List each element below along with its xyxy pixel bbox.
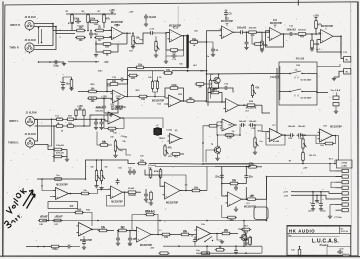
svg-text:100p: 100p: [53, 65, 59, 68]
svg-text:10k: 10k: [188, 97, 193, 100]
ground L chain: [66, 150, 68, 159]
ground R13: [261, 49, 263, 50]
svg-text:10u/63: 10u/63: [148, 16, 156, 19]
resistor R9 gain: [103, 51, 111, 54]
handwriting Bass: [4, 213, 23, 229]
svg-text:MC33078P: MC33078P: [166, 201, 179, 204]
power stub IC2B: [274, 25, 276, 28]
op-amp IC12 bot-left: [79, 223, 93, 237]
svg-text:47k: 47k: [106, 18, 111, 21]
svg-text:47k: 47k: [255, 87, 260, 90]
svg-text:10k: 10k: [90, 100, 95, 103]
capacitor C22 dark electrolytic: [154, 128, 163, 135]
capacitor C16 fb IC4A: [119, 79, 121, 81]
wire R16 down: [315, 28, 317, 34]
wire riser: [237, 224, 239, 234]
svg-text:22u+63: 22u+63: [40, 216, 48, 218]
border: inner margin line right: [350, 2, 352, 226]
ground RL area: [333, 77, 335, 79]
svg-text:-: -: [112, 188, 113, 191]
svg-text:-15V: -15V: [104, 62, 109, 64]
resistor R1 pullup: [71, 15, 74, 23]
ground fan: [335, 106, 337, 110]
svg-text:47k: 47k: [250, 34, 255, 37]
svg-text:47u/40: 47u/40: [273, 140, 280, 143]
ground P5 P6: [96, 181, 98, 185]
svg-text:C1 22p: C1 22p: [77, 26, 85, 28]
svg-text:J2 XLR-M: J2 XLR-M: [24, 16, 35, 19]
op-amp IC8 row3 right: [320, 129, 333, 142]
svg-text:22n: 22n: [249, 176, 254, 179]
wire mix bus B: [203, 164, 250, 167]
ground C15: [62, 87, 64, 88]
fb wire IC13: [146, 215, 151, 222]
resistor R45 inL: [57, 125, 63, 128]
vcc pair -15: [117, 99, 119, 101]
op-amp IC14 bot right: [197, 227, 211, 241]
svg-text:+15V: +15V: [77, 105, 83, 108]
wire C6 to IC1B: [155, 32, 170, 34]
op-amp IC7 row3: [270, 129, 283, 142]
blob bottom right: [343, 254, 349, 256]
junction bot node: [117, 230, 119, 232]
connector J1 XLR INPUT L: [25, 116, 34, 125]
power rail +15V top: [66, 13, 116, 15]
wire right col corner: [266, 177, 268, 221]
resistor R6 series: [96, 29, 104, 32]
svg-text:-: -: [113, 29, 114, 32]
wire pair top: [155, 163, 250, 165]
svg-text:Fan 2 B.A: Fan 2 B.A: [331, 89, 341, 92]
op-amp IC11 tone right: [228, 192, 242, 207]
wire fb top: [145, 167, 152, 170]
resistor R41s mid: [82, 192, 89, 195]
wire lower tap: [38, 61, 64, 63]
svg-text:10k: 10k: [140, 160, 145, 163]
svg-text:1%: 1%: [232, 131, 235, 133]
junction bus nodes: [41, 178, 43, 180]
svg-text:MC33078P: MC33078P: [270, 22, 283, 25]
op-amp IC1B: [170, 30, 182, 43]
junction heavy bus bottom: [187, 66, 189, 68]
capacitor C13 out: [340, 52, 342, 55]
wire strip feed row4: [331, 182, 336, 188]
resistor R51 bot: [99, 229, 107, 232]
capacitor C6 coupling: [149, 32, 151, 34]
junction R11 node: [206, 41, 208, 43]
border: scan edge bottom: [0, 255, 360, 257]
wire bottom rail2: [196, 252, 262, 254]
connector Fan pin2: [333, 103, 339, 106]
svg-text:J4 XLR-M: J4 XLR-M: [24, 133, 35, 136]
wire L out right: [123, 118, 125, 129]
svg-text:10k: 10k: [264, 44, 269, 47]
resistor R18b divider: [209, 80, 212, 88]
wire IC4B out: [182, 100, 187, 102]
svg-text:12u+63: 12u+63: [55, 216, 63, 218]
svg-text:MC33078: MC33078: [246, 107, 257, 110]
resistor R25 out: [187, 100, 194, 103]
potentiometer P4 mid: [302, 139, 304, 148]
capacitor C10 series: [239, 31, 241, 33]
capacitor C27 series: [240, 124, 242, 126]
wire J2J3 inner pair: [38, 28, 40, 45]
wire J4 out: [35, 145, 54, 150]
capacitor C27 link: [117, 179, 119, 181]
wire P7 bottom: [254, 147, 256, 151]
wire filters to IC1A: [105, 30, 113, 32]
wire R12 to IC2B: [256, 31, 269, 32]
resistor R3b rail: [90, 20, 98, 23]
potentiometer P5 vol: [95, 171, 97, 181]
wire Q3 base: [206, 150, 213, 162]
power stub IC1A: [116, 25, 118, 28]
svg-text:100n/63: 100n/63: [249, 121, 257, 123]
wire IC10b out: [123, 191, 129, 193]
feedback IC13: [133, 221, 158, 235]
svg-text:22k: 22k: [131, 77, 136, 80]
switch block frame: [279, 62, 317, 105]
op-amp IC10 tone mid: [165, 182, 181, 199]
wire IC2A out: [233, 31, 239, 33]
wire inL row2: [35, 125, 57, 127]
wire IC9 out: [69, 193, 82, 195]
svg-text:1M: 1M: [198, 86, 201, 89]
resistor R46 inL: [68, 125, 74, 128]
resistor R7 series: [96, 36, 104, 39]
capacitor C7 fb: [171, 55, 173, 57]
capacitor C36 bot right: [245, 236, 247, 238]
svg-text:-: -: [227, 101, 228, 104]
junction R14 out: [311, 33, 313, 35]
resistor R38 bus: [139, 162, 146, 165]
resistor R61 bot: [249, 238, 252, 245]
svg-text:10k: 10k: [164, 236, 169, 239]
svg-text:47k: 47k: [168, 147, 173, 150]
feedback IC6 loop: [217, 122, 240, 135]
wire IC5B in: [207, 99, 226, 103]
feedback IC7: [266, 132, 285, 145]
capacitor C37 tb: [337, 251, 339, 253]
wire riser x127: [127, 67, 129, 96]
vcc dist -15: [291, 194, 295, 196]
resistor R44 inL: [68, 118, 74, 121]
capacitor C42 bus box: [55, 178, 62, 181]
wire S1a out: [302, 74, 317, 93]
junction IC1B out heavy: [186, 34, 189, 37]
module box IC3: [48, 202, 78, 209]
connector Fan pin1: [333, 96, 339, 99]
svg-text:1%: 1%: [159, 77, 162, 79]
wire to TR3: [238, 233, 244, 235]
capacitor C31 mid: [235, 185, 237, 187]
resistor R19 left: [70, 80, 73, 88]
svg-text:MC33078P: MC33078P: [152, 100, 165, 103]
op-amp IC2A: [222, 26, 234, 39]
resistor R58 tb: [298, 249, 301, 255]
wire fb top2: [132, 215, 146, 231]
svg-text:-: -: [170, 97, 171, 100]
titleblock vert divider low: [326, 247, 328, 256]
capacitor C5 on tap: [53, 61, 55, 63]
handwriting 10k: [13, 188, 28, 203]
wire IC8 out: [333, 136, 339, 164]
ground P1: [132, 45, 134, 46]
svg-text:1,5k: 1,5k: [227, 137, 232, 140]
svg-text:100n/63: 100n/63: [239, 121, 247, 123]
wire block to right rail: [317, 64, 340, 67]
svg-text:47k/100: 47k/100: [249, 27, 257, 30]
capacitor C26 branch: [133, 169, 135, 171]
svg-text:+C3B1: +C3B1: [341, 166, 347, 168]
op-amp IC2B: [270, 28, 282, 41]
op-amp IC4B: [169, 95, 182, 107]
svg-text:+15V: +15V: [283, 192, 289, 194]
svg-text:100n/63: 100n/63: [298, 126, 306, 128]
svg-text:47k/100: 47k/100: [298, 28, 306, 31]
switch S1b: [289, 91, 290, 92]
wire bus y220: [42, 220, 267, 222]
wire x206 down: [206, 74, 208, 99]
wire +15 line: [295, 192, 336, 194]
wire caps to IC8: [303, 132, 320, 135]
resistor R14 series: [298, 33, 306, 36]
wire heavy vertical bus: [186, 36, 188, 68]
svg-text:TR06 1: TR06 1: [159, 138, 167, 140]
wire J1 to J4 link: [35, 120, 38, 127]
wire rail pair top: [128, 66, 136, 68]
wire RL2 link: [334, 71, 344, 77]
potentiometer P3: [164, 146, 166, 155]
wire IC6 to IC7: [255, 125, 270, 132]
wire input pair to filters: [53, 30, 75, 32]
resistor R22 fb IC4A: [110, 83, 118, 86]
wire IC11 out: [242, 198, 247, 200]
resistor R11 series: [191, 41, 198, 44]
resistor R53 fb: [146, 213, 154, 216]
svg-text:Nr.:: Nr.:: [341, 228, 345, 230]
op-amp IC13 bot mid: [137, 227, 152, 242]
svg-text:MC33078P: MC33078P: [56, 184, 68, 186]
svg-text:C7 100n: C7 100n: [334, 217, 342, 219]
ground IC10 under: [145, 198, 147, 199]
svg-text:100n/63: 100n/63: [237, 26, 247, 30]
connector RL2 box: [344, 69, 351, 75]
wire rail2 drops: [206, 246, 208, 253]
capacitor C41 inL: [101, 119, 103, 121]
resistor R12k b: [156, 82, 158, 89]
border: scan edge right: [357, 2, 359, 257]
svg-text:J3 XLR-M: J3 XLR-M: [24, 39, 35, 42]
svg-text:-: -: [223, 121, 224, 124]
power stub IC2A: [226, 24, 228, 27]
resistor R49 fb L: [108, 127, 116, 130]
wire -15 line: [295, 195, 336, 199]
resistor R23 link: [139, 95, 147, 98]
feedback IC1B loop: [166, 33, 171, 50]
ground bot right: [221, 240, 223, 241]
svg-text:THROU L: THROU L: [8, 142, 19, 145]
resistor R60 bus: [51, 245, 59, 248]
resistor R62 in line: [160, 252, 168, 255]
svg-text:MC33078P: MC33078P: [169, 24, 182, 27]
resistor R63 in line: [202, 252, 210, 255]
op-amp buffer row3b: [170, 134, 181, 144]
junction C12 R14: [295, 33, 297, 35]
ground P1b: [155, 51, 157, 55]
capacitor C30 branch b: [245, 174, 247, 176]
wire S1b out: [302, 91, 317, 94]
svg-text:C1B: C1B: [296, 65, 301, 67]
svg-text:100u/63: 100u/63: [95, 110, 103, 112]
svg-text:-: -: [321, 131, 322, 134]
svg-text:-: -: [138, 230, 139, 233]
transistor Q3 row3: [214, 147, 220, 153]
resistor R39 branch: [149, 170, 152, 178]
titleblock frame: [287, 226, 351, 255]
wire to IC4A: [78, 91, 88, 93]
wire Q3 collector: [217, 135, 219, 147]
svg-text:22p: 22p: [93, 33, 98, 36]
svg-text:ERA-4+1: ERA-4+1: [154, 170, 163, 173]
potentiometer P6 bass: [100, 171, 102, 181]
svg-text:HK AUDIO: HK AUDIO: [289, 228, 315, 233]
resistor R40 branch: [159, 170, 162, 178]
svg-text:2SK30A: 2SK30A: [250, 236, 253, 244]
svg-text:+15V: +15V: [129, 12, 135, 14]
capacitor C30 series: [297, 134, 299, 136]
svg-text:-: -: [171, 135, 172, 138]
resistor R43 inL: [57, 118, 63, 121]
wire row3 links: [235, 124, 237, 126]
wire bot rail: [163, 245, 262, 247]
resistor R4 input: [77, 29, 85, 32]
vcc right rail: [315, 18, 317, 20]
ground dec caps: [312, 208, 314, 209]
svg-text:MC33078P: MC33078P: [321, 25, 334, 28]
wire Q3 emitter: [217, 153, 219, 157]
wire IC5B out: [239, 104, 248, 106]
resistor R57 out3: [242, 228, 250, 231]
junction row3: [202, 142, 204, 144]
capacitor C1 across inputs: [90, 31, 92, 33]
resistor R48 bot: [40, 219, 47, 222]
svg-text:47k-150: 47k-150: [296, 57, 305, 60]
resistor R28 out IC5B: [247, 104, 255, 107]
feedback IC8: [316, 132, 328, 143]
svg-text:12k 1%: 12k 1%: [309, 155, 316, 157]
svg-text:-: -: [322, 32, 323, 35]
svg-text:10k: 10k: [90, 88, 95, 91]
op-amp IC5A input L: [108, 112, 121, 124]
op-amp IC9 tone L: [56, 188, 69, 200]
svg-text:470u/25: 470u/25: [56, 151, 64, 154]
svg-text:100n/63: 100n/63: [288, 126, 296, 128]
resistor R12 series: [249, 31, 257, 34]
svg-text:DJ 50-6847: DJ 50-6847: [301, 97, 313, 100]
border: faint fold smudge: [178, 6, 179, 28]
svg-text:-: -: [166, 185, 167, 188]
capacitor C43 bot: [194, 238, 196, 240]
svg-text:100n/63: 100n/63: [56, 145, 64, 147]
ground P8: [115, 154, 117, 155]
resistor R10 fb IC1B: [171, 49, 178, 52]
svg-text:-: -: [57, 189, 58, 192]
svg-text:+15V: +15V: [313, 15, 319, 18]
wire inL row1: [35, 118, 57, 120]
svg-text:+15V: +15V: [101, 96, 107, 99]
svg-text:DJ 50-6847: DJ 50-6847: [301, 79, 313, 82]
wire IC9 in: [42, 179, 56, 191]
svg-text:MC33078P: MC33078P: [221, 20, 234, 23]
junction J2 out: [52, 23, 54, 25]
capacitor C9 rail: [225, 11, 227, 13]
svg-text:10k: 10k: [166, 69, 171, 72]
resistor R45 mid: [230, 182, 238, 185]
resistor R24 fb IC4B: [170, 87, 178, 90]
svg-text:47u/40: 47u/40: [68, 22, 75, 25]
wire row2 right link: [262, 105, 270, 113]
wire IC4B in: [154, 97, 156, 99]
connector ST1 pins: [336, 170, 343, 172]
svg-text:ERA-4+1: ERA-4+1: [146, 210, 155, 213]
resistor R2 pullup: [87, 15, 90, 23]
ground tap: [63, 62, 65, 64]
feedback IC2B: [266, 31, 284, 47]
capacitor C44 under IC12: [83, 236, 85, 240]
wire y70 to switch block: [188, 70, 207, 72]
ground Q2: [243, 241, 245, 247]
svg-text:-: -: [271, 30, 272, 33]
wire J2 to J3 link: [34, 24, 53, 46]
wire strip feed row1: [330, 164, 336, 171]
svg-text:C19: C19: [270, 76, 275, 79]
wire left bot riser: [42, 220, 82, 222]
capacitor C39 bus: [66, 246, 68, 248]
wire TR3 feed: [243, 221, 245, 234]
svg-text:J1 XLR-M: J1 XLR-M: [25, 112, 36, 115]
resistor R56 out2: [222, 232, 230, 235]
wire Q1 emitter: [213, 85, 219, 89]
capacitor C29 series: [289, 134, 291, 136]
connector ST1 header box: [337, 160, 353, 168]
junction x206: [206, 73, 208, 75]
capacitor C34 bot: [117, 236, 119, 238]
resistor R42 under: [150, 192, 153, 200]
ground C8: [212, 53, 214, 54]
connector J2 XLR INPUT R: [25, 20, 34, 29]
wire IC13 out: [151, 234, 162, 236]
capacitor C40 inL: [95, 119, 97, 121]
wire IC10 out: [180, 190, 192, 192]
resistor R8 feedback IC1A: [126, 33, 128, 44]
capacitor C19 fb IC5B: [223, 87, 225, 89]
resistor R17 in rail1: [137, 66, 144, 69]
capacitor C15 left: [62, 81, 64, 83]
vcc dist +15: [291, 191, 295, 193]
capacitor C35 bot: [129, 236, 131, 238]
svg-text:-: -: [223, 28, 224, 31]
wire rail pair bottom: [128, 70, 164, 72]
capacitor C33 dec: [320, 192, 322, 202]
ground fb node: [165, 56, 167, 60]
resistor R46 out IC11: [248, 198, 256, 201]
ground decoupling: [104, 110, 118, 113]
wire into block: [279, 73, 290, 75]
op-amp IC4A: [113, 90, 126, 103]
potentiometer P1 level R: [132, 36, 134, 45]
wire bottom bus: [26, 246, 50, 248]
